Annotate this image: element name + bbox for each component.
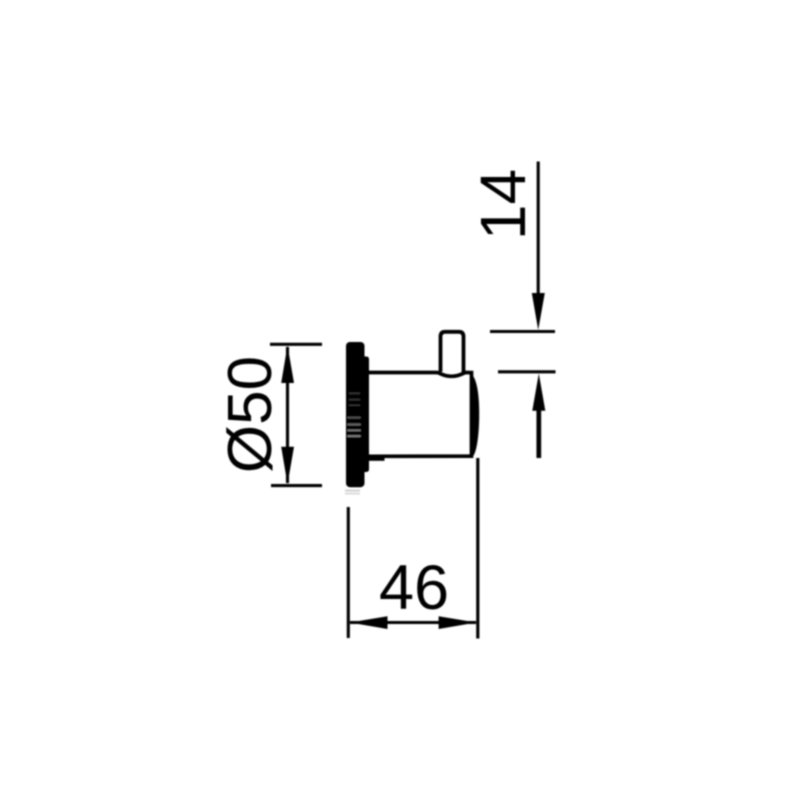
svg-text:Ø50: Ø50 — [216, 356, 285, 473]
svg-text:46: 46 — [379, 553, 449, 623]
svg-text:14: 14 — [467, 169, 539, 240]
